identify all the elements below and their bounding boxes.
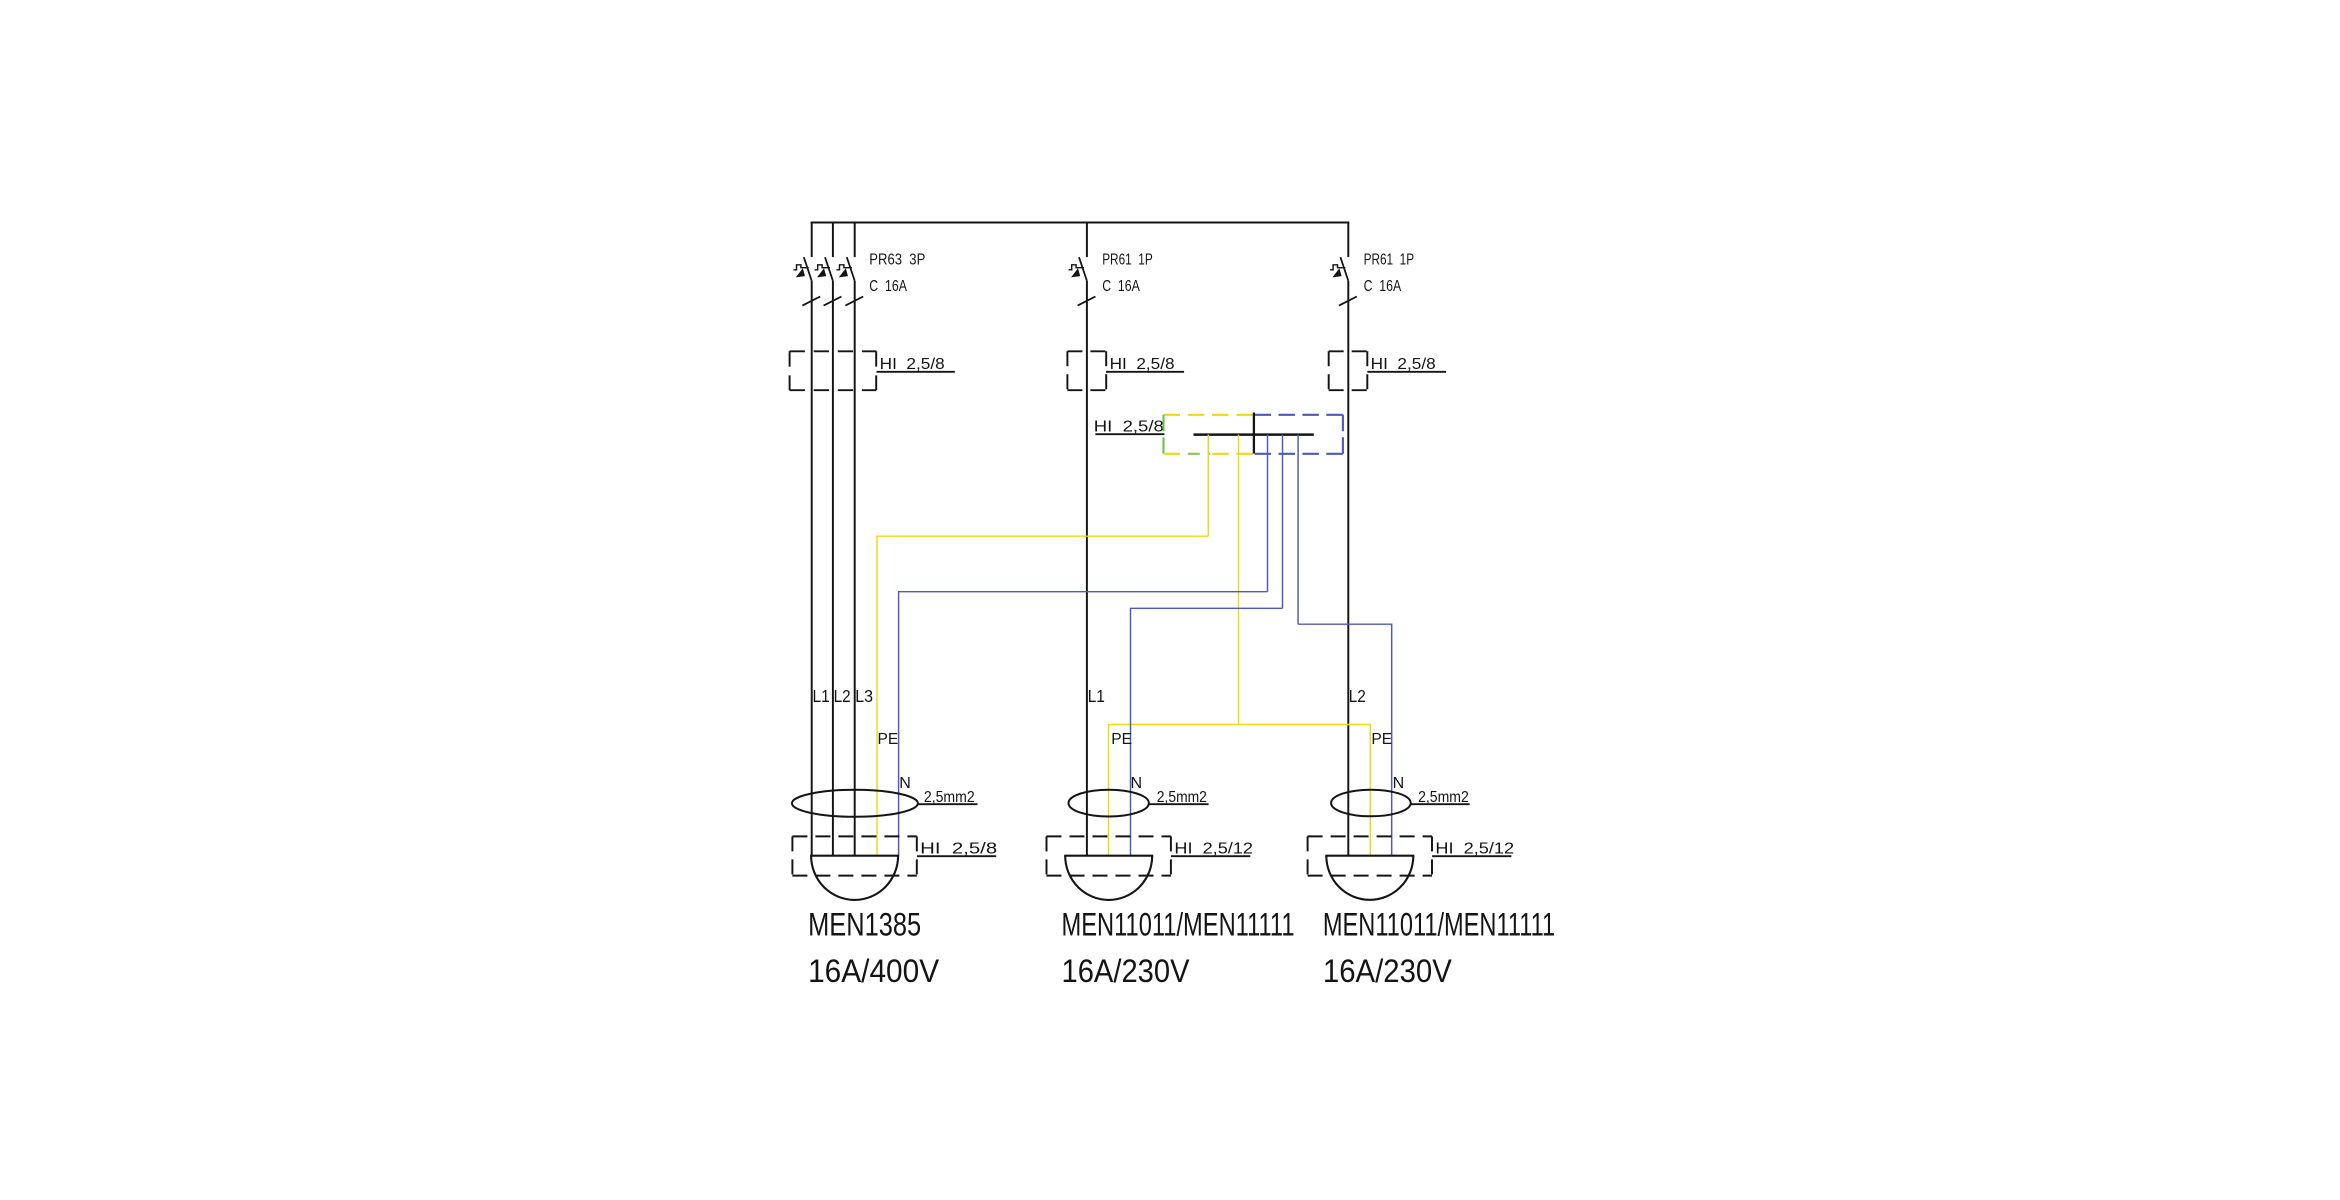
breaker FA1 pole 3	[836, 257, 863, 305]
svg-text:L1: L1	[1088, 686, 1105, 706]
cable marker W2 (ellipse)	[1069, 790, 1149, 817]
svg-text:L3: L3	[855, 686, 873, 706]
svg-text:C 16A: C 16A	[1102, 278, 1140, 295]
wire PE2 run to middle socket	[1109, 725, 1239, 856]
svg-text:PR63 3P: PR63 3P	[869, 251, 925, 268]
svg-text:L2: L2	[834, 686, 851, 706]
wire: L2 drop lower to socket	[832, 281, 834, 856]
wire N1 drop from busbar	[1267, 435, 1269, 592]
svg-text:HI 2,5/12: HI 2,5/12	[1174, 840, 1253, 857]
svg-text:PE: PE	[878, 731, 899, 748]
wire: L2 drop upper (pole 2)	[832, 223, 834, 258]
wire: middle circuit drop lower to socket	[1086, 281, 1088, 856]
terminal strip X4 (dashed box at left socket)	[792, 836, 916, 875]
svg-text:HI 2,5/8: HI 2,5/8	[1110, 356, 1175, 373]
wire PE2 drop from busbar	[1238, 435, 1240, 725]
terminal strip X6 (dashed box at right socket)	[1308, 836, 1432, 875]
cable marker W3 (ellipse)	[1331, 790, 1411, 817]
svg-text:HI 2,5/8: HI 2,5/8	[880, 356, 945, 373]
svg-text:L1: L1	[813, 686, 830, 706]
node: XD1 busbar	[1194, 433, 1314, 436]
wire PE1 drop from busbar	[1207, 435, 1209, 537]
svg-text:16A/230V: 16A/230V	[1062, 953, 1191, 989]
terminal strip X5 (dashed box at middle socket)	[1047, 836, 1171, 875]
svg-text:HI 2,5/12: HI 2,5/12	[1435, 840, 1514, 857]
svg-text:16A/230V: 16A/230V	[1323, 953, 1453, 989]
distribution block XD1 PE section (yellow/green dashed box)	[1164, 415, 1253, 454]
distribution block XD1 N section (blue dashed box)	[1255, 415, 1343, 454]
wire N3 drop from busbar	[1297, 435, 1299, 625]
wire: L1 drop upper (pole 1)	[811, 223, 813, 258]
svg-text:2,5mm2: 2,5mm2	[924, 789, 975, 806]
wire: L3 drop lower to socket	[854, 281, 856, 856]
svg-text:N: N	[1131, 775, 1143, 792]
wire N1 run to left socket	[899, 592, 1268, 856]
wire: L3 drop upper (pole 3)	[854, 223, 856, 258]
label X6 underline	[1432, 855, 1511, 857]
wire: L1 drop lower to socket	[811, 281, 813, 856]
svg-text:PR61 1P: PR61 1P	[1102, 251, 1153, 268]
label X5 underline	[1171, 855, 1250, 857]
socket XS2 terminal line	[1064, 855, 1153, 857]
svg-text:2,5mm2: 2,5mm2	[1418, 789, 1469, 806]
svg-text:HI 2,5/8: HI 2,5/8	[920, 840, 997, 857]
wire N2 run to middle socket	[1131, 608, 1283, 855]
breaker FA1 pole 1	[793, 257, 820, 305]
wire PE1 run to left socket	[877, 536, 1208, 856]
socket XS1 body (semicircle)	[811, 856, 898, 900]
svg-text:HI 2,5/8: HI 2,5/8	[1094, 418, 1164, 435]
cable W1 leader	[918, 803, 978, 805]
wire N3 run to right socket	[1298, 624, 1392, 856]
svg-text:2,5mm2: 2,5mm2	[1157, 789, 1207, 806]
socket XS3 body (semicircle)	[1326, 856, 1413, 900]
cable W2 leader	[1149, 803, 1209, 805]
node: XD1 feed stub	[1253, 413, 1255, 454]
terminal strip X3 (dashed box)	[1329, 351, 1368, 390]
wire: middle circuit drop upper	[1086, 223, 1088, 258]
wire N2 drop from busbar	[1282, 435, 1284, 609]
wire: right circuit drop upper	[1347, 223, 1349, 258]
cable marker W1 (ellipse)	[792, 790, 918, 817]
terminal strip X1 (dashed box, 3-pole)	[790, 351, 877, 390]
breaker FA3 pole	[1330, 257, 1357, 305]
breaker FA2 pole	[1069, 257, 1096, 305]
svg-text:16A/400V: 16A/400V	[808, 953, 940, 989]
cable W3 leader	[1411, 803, 1470, 805]
breaker FA1 pole 2	[815, 257, 842, 305]
terminal strip X2 (dashed box)	[1067, 351, 1106, 390]
svg-text:N: N	[899, 775, 911, 792]
socket XS1 terminal line	[810, 855, 899, 857]
label XD1 underline	[1095, 433, 1164, 435]
socket XS3 terminal line	[1325, 855, 1414, 857]
svg-text:L2: L2	[1349, 686, 1366, 706]
svg-text:PE: PE	[1111, 731, 1132, 748]
svg-text:PR61 1P: PR61 1P	[1364, 251, 1415, 268]
svg-text:C 16A: C 16A	[1364, 278, 1402, 295]
svg-text:MEN11011/MEN11111: MEN11011/MEN11111	[1062, 906, 1295, 942]
label X3 underline	[1367, 371, 1446, 373]
svg-text:HI 2,5/8: HI 2,5/8	[1371, 356, 1436, 373]
label X2 underline	[1106, 371, 1184, 373]
svg-text:MEN1385: MEN1385	[808, 906, 921, 942]
wire PE3 run to right socket	[1239, 725, 1371, 856]
svg-text:PE: PE	[1371, 731, 1392, 748]
socket XS2 body (semicircle)	[1065, 856, 1152, 900]
svg-text:C 16A: C 16A	[869, 278, 907, 295]
label X1 underline	[877, 371, 955, 373]
wire: top feeder bus	[811, 222, 1350, 224]
svg-text:N: N	[1393, 775, 1405, 792]
wire: right circuit drop lower to socket	[1347, 281, 1349, 856]
label X4 underline	[917, 855, 996, 857]
svg-text:MEN11011/MEN11111: MEN11011/MEN11111	[1323, 906, 1555, 942]
